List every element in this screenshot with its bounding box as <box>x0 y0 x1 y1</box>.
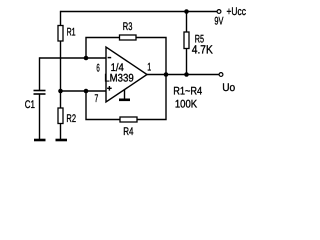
svg-text:C1: C1 <box>25 99 35 111</box>
svg-text:R4: R4 <box>123 126 133 138</box>
wire pin6 horizontal <box>40 57 107 59</box>
resistor R2 <box>58 108 63 124</box>
op-amp U1 triangle 1/4 LM339 <box>106 47 147 102</box>
wire R5 top riser <box>186 12 188 33</box>
svg-text:R1: R1 <box>67 27 76 39</box>
wire R1 top riser <box>60 11 62 26</box>
wire output horizontal <box>147 74 219 76</box>
junction node R3 tap pin6 <box>84 56 89 61</box>
wire R2 to ground <box>60 124 62 140</box>
wire R4 right riser <box>137 75 166 120</box>
svg-text:Uo: Uo <box>222 82 235 94</box>
svg-text:LM339: LM339 <box>104 73 133 85</box>
svg-text:+Ucc: +Ucc <box>227 6 247 18</box>
svg-text:7: 7 <box>95 93 99 105</box>
wire R4 left riser <box>86 91 120 120</box>
wire R1-R2 vertical <box>60 41 62 108</box>
svg-text:4.7K: 4.7K <box>192 42 213 56</box>
svg-text:R2: R2 <box>66 113 76 125</box>
junction node R4 tap pin7 <box>84 89 89 94</box>
wire R3 left riser <box>86 38 120 59</box>
resistor R5 <box>184 32 189 49</box>
svg-text:R1~R4: R1~R4 <box>173 85 202 97</box>
resistor R1 <box>58 26 63 42</box>
wire C1 riser <box>39 57 41 90</box>
op-amp plus sign <box>107 86 112 91</box>
junction node top rail at R5 <box>184 9 189 14</box>
op-amp ground stub <box>124 90 126 100</box>
svg-text:100K: 100K <box>175 99 198 111</box>
terminal Uo circle <box>219 73 223 77</box>
svg-text:1: 1 <box>147 62 151 74</box>
op-amp minus sign <box>108 57 112 59</box>
junction node divider pin7 <box>58 89 63 94</box>
junction node output at R3/R4 riser <box>164 72 169 77</box>
terminal +Ucc circle <box>217 10 221 14</box>
svg-text:6: 6 <box>96 63 99 75</box>
resistor R4 <box>120 117 137 122</box>
svg-text:R3: R3 <box>123 21 133 33</box>
wire R5 bottom riser <box>186 49 188 75</box>
wire pin7 horizontal <box>61 90 107 92</box>
wire R3 right to output riser <box>136 38 166 75</box>
resistor R3 <box>120 35 137 40</box>
capacitor C1 plates <box>34 91 46 95</box>
wire top rail <box>61 11 218 13</box>
svg-text:9V: 9V <box>214 16 223 28</box>
ground C1 <box>34 139 46 142</box>
wire C1 to ground <box>39 94 41 140</box>
op-amp ground bar <box>119 99 130 102</box>
junction node output at R5 <box>184 72 189 77</box>
ground R2 <box>56 139 68 142</box>
